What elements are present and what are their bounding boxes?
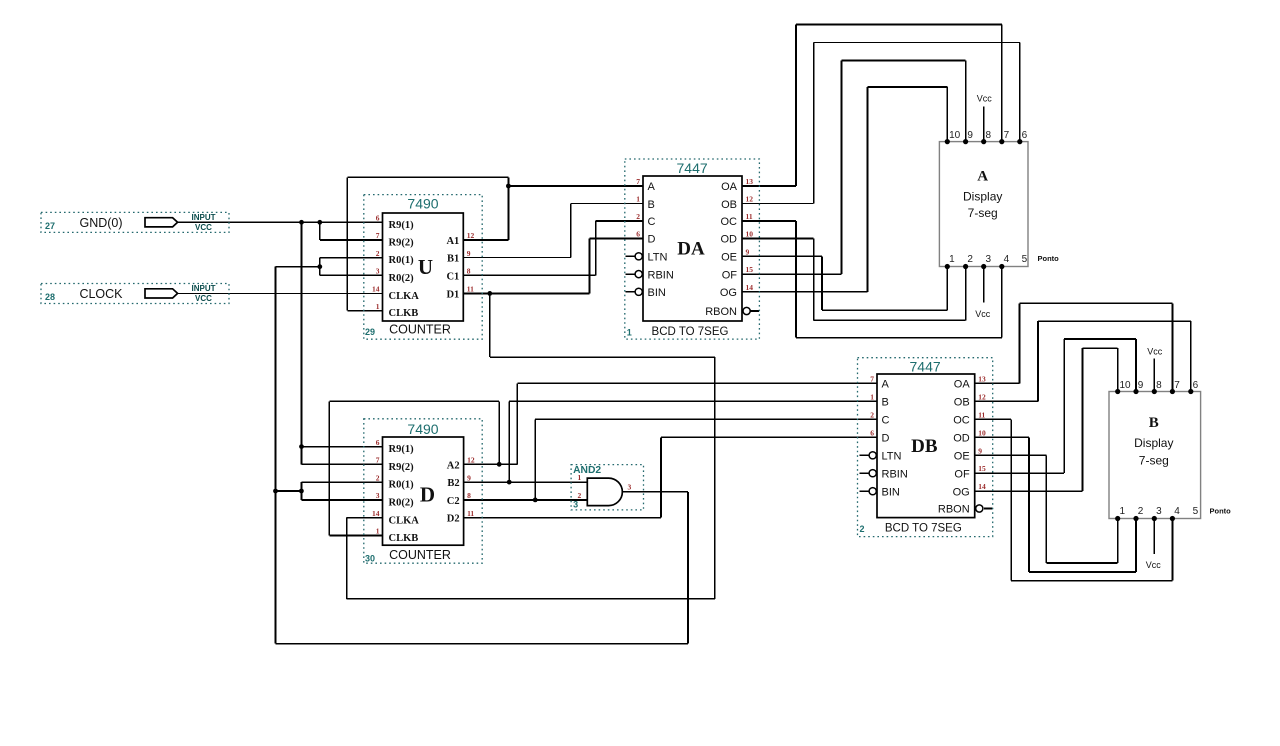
svg-text:7-seg: 7-seg: [1139, 454, 1169, 468]
svg-text:3: 3: [986, 254, 992, 265]
svg-text:30: 30: [365, 554, 375, 564]
svg-text:Ponto: Ponto: [1210, 507, 1232, 516]
svg-text:13: 13: [746, 177, 754, 186]
svg-text:6: 6: [1193, 380, 1199, 391]
svg-text:Ponto: Ponto: [1038, 254, 1060, 263]
svg-text:8: 8: [1156, 380, 1162, 391]
svg-text:3: 3: [573, 500, 578, 510]
svg-text:U: U: [418, 255, 433, 279]
svg-text:DA: DA: [677, 239, 705, 260]
svg-text:7447: 7447: [677, 160, 708, 176]
svg-text:OG: OG: [953, 486, 970, 498]
svg-text:BCD TO 7SEG: BCD TO 7SEG: [885, 522, 962, 534]
svg-text:CLOCK: CLOCK: [79, 287, 123, 301]
svg-text:14: 14: [372, 509, 380, 518]
svg-text:5: 5: [1022, 254, 1028, 265]
svg-text:11: 11: [746, 212, 753, 221]
svg-text:D1: D1: [446, 289, 459, 300]
svg-text:OF: OF: [722, 269, 738, 281]
svg-text:RBON: RBON: [705, 306, 737, 318]
svg-text:14: 14: [746, 283, 754, 292]
svg-text:3: 3: [1156, 506, 1162, 517]
svg-text:2: 2: [578, 491, 582, 500]
svg-text:14: 14: [978, 482, 986, 491]
svg-text:RBON: RBON: [938, 504, 970, 516]
svg-text:Vcc: Vcc: [1146, 560, 1162, 570]
svg-text:B2: B2: [447, 478, 459, 489]
svg-text:10: 10: [1120, 380, 1132, 391]
svg-text:Vcc: Vcc: [975, 309, 991, 319]
svg-text:DB: DB: [911, 436, 938, 457]
svg-text:4: 4: [1004, 254, 1010, 265]
svg-text:7: 7: [870, 374, 874, 383]
svg-text:9: 9: [1138, 380, 1144, 391]
svg-text:R9(1): R9(1): [389, 220, 415, 231]
svg-text:7: 7: [376, 456, 380, 465]
svg-text:7490: 7490: [407, 196, 438, 212]
svg-text:9: 9: [467, 473, 471, 482]
svg-text:A: A: [648, 181, 656, 193]
svg-text:RBIN: RBIN: [882, 468, 908, 480]
svg-text:A: A: [977, 169, 988, 185]
svg-text:LTN: LTN: [648, 252, 668, 264]
svg-text:B1: B1: [447, 254, 459, 265]
svg-text:R9(2): R9(2): [389, 238, 415, 249]
svg-text:R0(2): R0(2): [389, 498, 415, 509]
svg-text:11: 11: [978, 410, 985, 419]
svg-text:R0(2): R0(2): [389, 273, 415, 284]
svg-text:13: 13: [978, 374, 986, 383]
svg-text:10: 10: [746, 230, 754, 239]
svg-text:A: A: [882, 379, 890, 391]
svg-text:6: 6: [870, 428, 874, 437]
svg-text:B: B: [648, 199, 655, 211]
svg-text:OB: OB: [721, 199, 737, 211]
svg-text:3: 3: [376, 267, 380, 276]
svg-text:9: 9: [746, 247, 750, 256]
svg-text:8: 8: [467, 267, 471, 276]
svg-text:7: 7: [376, 231, 380, 240]
svg-text:OG: OG: [720, 287, 737, 299]
svg-text:3: 3: [628, 483, 632, 492]
svg-text:Display: Display: [963, 190, 1002, 204]
svg-text:15: 15: [978, 464, 986, 473]
svg-text:INPUT: INPUT: [192, 213, 216, 222]
svg-text:OF: OF: [954, 468, 970, 480]
svg-text:OC: OC: [953, 415, 970, 427]
svg-text:6: 6: [1022, 130, 1028, 141]
svg-text:1: 1: [578, 473, 582, 482]
svg-text:A1: A1: [446, 236, 459, 247]
svg-text:R9(1): R9(1): [389, 444, 415, 455]
svg-text:2: 2: [870, 410, 874, 419]
svg-text:CLKB: CLKB: [389, 533, 419, 544]
svg-text:OA: OA: [954, 379, 971, 391]
svg-text:Vcc: Vcc: [1147, 347, 1163, 357]
svg-text:4: 4: [1174, 506, 1180, 517]
svg-text:9: 9: [978, 446, 982, 455]
svg-text:11: 11: [467, 509, 474, 518]
svg-text:R0(1): R0(1): [389, 480, 415, 491]
svg-text:2: 2: [376, 473, 380, 482]
svg-text:OE: OE: [954, 451, 970, 463]
svg-text:29: 29: [365, 327, 375, 337]
svg-text:2: 2: [636, 212, 640, 221]
svg-text:6: 6: [376, 438, 380, 447]
svg-text:GND(0): GND(0): [79, 216, 122, 230]
svg-text:Vcc: Vcc: [977, 94, 993, 104]
svg-text:D2: D2: [447, 514, 460, 525]
svg-text:Display: Display: [1134, 436, 1173, 450]
svg-text:B: B: [882, 397, 889, 409]
svg-text:7: 7: [636, 177, 640, 186]
svg-text:C: C: [648, 216, 656, 228]
svg-text:9: 9: [467, 249, 471, 258]
svg-text:9: 9: [967, 130, 973, 141]
svg-text:C1: C1: [446, 271, 459, 282]
svg-text:COUNTER: COUNTER: [389, 323, 451, 337]
svg-text:1: 1: [376, 302, 380, 311]
svg-text:BCD TO 7SEG: BCD TO 7SEG: [652, 326, 729, 338]
svg-text:C2: C2: [447, 496, 460, 507]
svg-text:7447: 7447: [910, 359, 941, 375]
svg-text:14: 14: [372, 285, 380, 294]
svg-text:12: 12: [746, 195, 754, 204]
svg-text:28: 28: [45, 292, 55, 302]
svg-text:1: 1: [627, 328, 632, 338]
svg-text:D: D: [648, 234, 656, 246]
svg-text:1: 1: [1120, 506, 1126, 517]
svg-text:10: 10: [949, 130, 961, 141]
svg-text:7: 7: [1004, 130, 1010, 141]
svg-text:5: 5: [1193, 506, 1199, 517]
svg-text:2: 2: [376, 249, 380, 258]
svg-text:OC: OC: [721, 216, 738, 228]
svg-text:2: 2: [860, 524, 865, 534]
svg-text:1: 1: [636, 195, 640, 204]
svg-text:A2: A2: [447, 460, 460, 471]
svg-text:1: 1: [376, 527, 380, 536]
svg-text:27: 27: [45, 221, 55, 231]
svg-text:D: D: [882, 433, 890, 445]
svg-text:BIN: BIN: [648, 287, 666, 299]
svg-text:6: 6: [376, 214, 380, 223]
svg-text:2: 2: [967, 254, 973, 265]
svg-text:3: 3: [376, 491, 380, 500]
svg-text:OA: OA: [721, 181, 738, 193]
svg-text:2: 2: [1138, 506, 1144, 517]
svg-text:1: 1: [870, 392, 874, 401]
svg-text:B: B: [1149, 415, 1159, 431]
svg-text:CLKA: CLKA: [389, 515, 420, 526]
svg-text:VCC: VCC: [195, 223, 212, 232]
svg-text:OE: OE: [721, 252, 737, 264]
svg-text:11: 11: [467, 285, 474, 294]
svg-text:OB: OB: [954, 397, 970, 409]
svg-text:7490: 7490: [407, 421, 438, 437]
svg-text:7: 7: [1174, 380, 1180, 391]
svg-text:12: 12: [467, 456, 475, 465]
svg-text:VCC: VCC: [195, 294, 212, 303]
svg-text:C: C: [882, 415, 890, 427]
svg-text:CLKB: CLKB: [389, 308, 419, 319]
svg-text:15: 15: [746, 265, 754, 274]
svg-text:R9(2): R9(2): [389, 462, 415, 473]
svg-text:R0(1): R0(1): [389, 255, 415, 266]
svg-text:CLKA: CLKA: [389, 291, 420, 302]
svg-text:D: D: [420, 483, 435, 507]
svg-text:OD: OD: [953, 433, 970, 445]
svg-text:6: 6: [636, 230, 640, 239]
svg-text:RBIN: RBIN: [648, 269, 674, 281]
svg-text:7-seg: 7-seg: [968, 206, 998, 220]
svg-text:BIN: BIN: [882, 486, 900, 498]
svg-text:COUNTER: COUNTER: [389, 548, 451, 562]
svg-text:8: 8: [986, 130, 992, 141]
svg-text:OD: OD: [721, 234, 738, 246]
svg-text:10: 10: [978, 428, 986, 437]
svg-text:LTN: LTN: [882, 451, 902, 463]
svg-text:INPUT: INPUT: [192, 284, 216, 293]
svg-text:12: 12: [978, 392, 986, 401]
svg-text:8: 8: [467, 491, 471, 500]
svg-text:12: 12: [467, 231, 475, 240]
svg-text:1: 1: [949, 254, 955, 265]
